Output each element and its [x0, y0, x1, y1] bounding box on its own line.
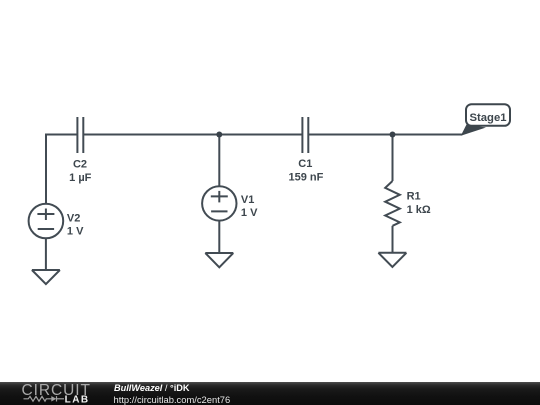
wire: node A to C1 left plate	[219, 134, 302, 136]
wire: horizontal from corner to C2 left plate	[45, 134, 77, 136]
wire: V2 to ground	[45, 238, 47, 270]
svg-text:V2: V2	[67, 213, 80, 225]
svg-text:R1: R1	[407, 191, 421, 203]
wire: left vertical from top-left corner down to V2	[45, 135, 47, 205]
capacitor C1	[302, 117, 308, 153]
wire: C1 right plate to node B	[308, 134, 392, 136]
svg-text:C1: C1	[298, 158, 312, 170]
wire: node B down to R1	[392, 135, 394, 182]
capacitor C2	[77, 117, 83, 153]
wire: R1 to ground	[392, 226, 394, 253]
flag Stage1 box	[466, 104, 510, 126]
svg-text:C2: C2	[73, 159, 87, 171]
svg-text:159 nF: 159 nF	[288, 172, 323, 184]
flag Stage1 pointer	[461, 125, 486, 136]
wire: node A down to V1	[218, 135, 220, 187]
node B junction dot	[390, 132, 396, 138]
ground (V1)	[205, 253, 233, 267]
svg-text:LAB: LAB	[65, 394, 90, 405]
node A junction dot	[216, 132, 222, 138]
voltage source V1	[202, 186, 236, 220]
svg-text:1 kΩ: 1 kΩ	[407, 204, 431, 216]
wire: node B to Stage1 flag	[393, 134, 463, 136]
voltage source V2	[29, 204, 64, 239]
ground (V2)	[32, 270, 60, 284]
wire: C2 right plate to node A	[83, 134, 219, 136]
svg-text:Stage1: Stage1	[469, 112, 506, 124]
svg-text:1 V: 1 V	[241, 207, 258, 219]
attribution text	[114, 384, 190, 393]
resistor R1	[385, 181, 400, 226]
svg-text:V1: V1	[241, 194, 254, 206]
svg-text:1 V: 1 V	[67, 226, 84, 238]
ground (R1)	[378, 253, 406, 267]
CircuitLab logo	[0, 382, 110, 405]
svg-text:1 µF: 1 µF	[69, 172, 92, 184]
wire: V1 to ground	[218, 221, 220, 253]
footer bar	[0, 382, 540, 405]
